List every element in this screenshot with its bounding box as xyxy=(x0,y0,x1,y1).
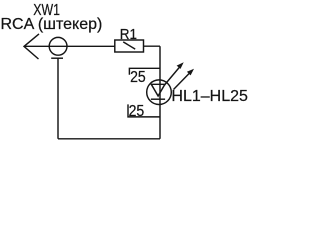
wire xyxy=(24,45,115,47)
wire xyxy=(144,45,161,47)
connector XW1 xyxy=(24,34,67,59)
group mark 25 top xyxy=(129,68,160,74)
svg-text:RCA (штекер): RCA (штекер) xyxy=(1,16,103,33)
wire xyxy=(159,46,161,139)
svg-text:25: 25 xyxy=(129,102,145,120)
group mark 25 bottom xyxy=(128,104,160,117)
svg-text:R1: R1 xyxy=(120,26,137,43)
svg-text:HL1–HL25: HL1–HL25 xyxy=(171,88,248,105)
svg-text:25: 25 xyxy=(130,68,146,86)
resistor R1 xyxy=(115,40,144,52)
wire xyxy=(57,58,59,139)
LED HL1-HL25 xyxy=(147,62,194,104)
wire xyxy=(58,138,160,140)
